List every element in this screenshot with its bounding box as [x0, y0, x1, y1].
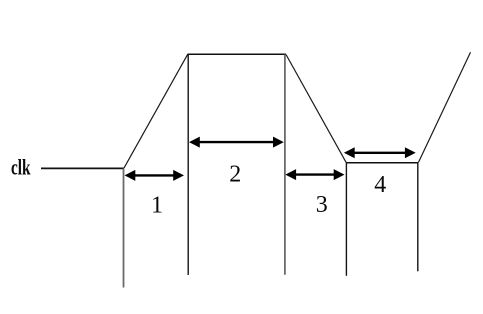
wire: clk low level segment 2 [346, 162, 418, 164]
svg-text:4: 4 [374, 172, 386, 198]
svg-text:3: 3 [316, 192, 328, 218]
wire: rising edge 2 [418, 52, 470, 162]
svg-text:clk: clk [11, 155, 31, 180]
dropline V5 at rising edge 2 start [417, 163, 419, 271]
wire: clk low level segment 1 [41, 167, 124, 169]
dropline V3 at falling edge start [284, 55, 286, 275]
dimension arrow 4 (low time) [344, 147, 416, 158]
svg-text:1: 1 [151, 193, 163, 219]
dimension arrow 1 (rise time) [125, 170, 185, 181]
svg-text:2: 2 [229, 162, 241, 188]
dropline V1 at rising edge 1 start [123, 169, 125, 288]
wire: rising edge 1 [124, 54, 188, 168]
dimension arrow 3 (fall time) [285, 169, 344, 180]
dropline V2 at rising edge 1 end [187, 55, 189, 276]
dimension arrow 2 (high time) [189, 137, 284, 148]
wire: high plateau [188, 53, 287, 55]
dropline V4 at falling edge end [345, 163, 347, 276]
wire: falling edge [286, 55, 346, 163]
